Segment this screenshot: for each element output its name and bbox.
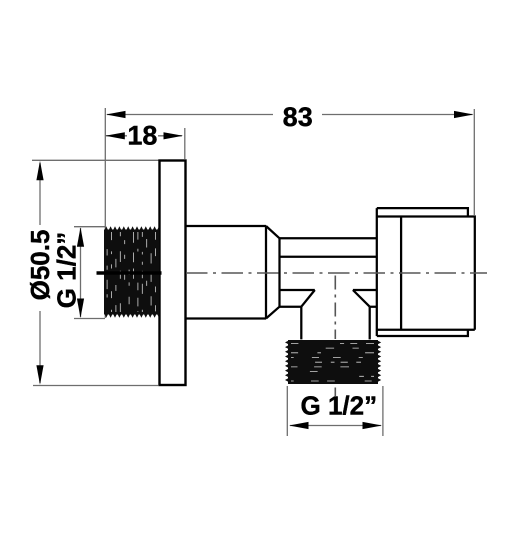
wire: extension line bottom of G1/2 left [74, 318, 105, 320]
wire: extension line left of bottom G1/2 [286, 386, 288, 436]
centerline vertical of outlet dash-dot [334, 276, 336, 340]
outlet chamfer left [301, 290, 315, 307]
handle inner line [400, 217, 402, 330]
flange escutcheon plate [160, 161, 186, 386]
wire: extension line bottom of dia 50.5 [33, 385, 158, 387]
dimension bottom G1/2 line [290, 425, 381, 427]
dimension 18 line [106, 135, 127, 137]
wire: extension line right of 83 dim [473, 109, 475, 215]
dimension G1/2 left line [80, 228, 82, 317]
arrow right of 18 [164, 132, 184, 139]
tube section [280, 238, 377, 256]
arrow bottom of G1/2 left [77, 299, 84, 319]
centerline horizontal dash-dot [186, 272, 487, 274]
svg-text:83: 83 [283, 102, 313, 132]
arrow left of bottom G1/2 [289, 422, 309, 429]
arrow bottom of dia50.5 [36, 365, 43, 385]
svg-text:G 1/2”: G 1/2” [51, 232, 81, 309]
arrow right of bottom G1/2 [363, 422, 383, 429]
dimension 83 line [107, 114, 273, 116]
arrow top of dia50.5 [36, 161, 43, 181]
handle body [377, 208, 475, 336]
arrow left of 18 [105, 132, 125, 139]
svg-text:18: 18 [127, 120, 157, 150]
arrow left of 83 [106, 111, 126, 118]
arrow right of 83 [454, 111, 474, 118]
body cone transition [266, 226, 280, 319]
svg-text:G 1/2”: G 1/2” [301, 391, 378, 421]
outlet thread block G1/2 male [285, 340, 381, 384]
centerline horizontal thick dash through left thread [97, 271, 162, 274]
main body cylinder [186, 226, 267, 319]
wire: extension line right of 18 dim [184, 128, 186, 159]
wire: extension line top of G1/2 left [74, 226, 105, 228]
wire: extension line right of bottom G1/2 [382, 386, 384, 436]
wire: extension line top of dia 50.5 [32, 159, 160, 161]
wire: extension line left of 83/18 dims [104, 108, 106, 318]
dimension dia50.5 line [39, 163, 41, 225]
outlet neck [301, 307, 369, 340]
left thread block G1/2 male [104, 226, 160, 317]
outlet chamfer right [353, 290, 370, 307]
arrow top of G1/2 left [77, 227, 84, 247]
